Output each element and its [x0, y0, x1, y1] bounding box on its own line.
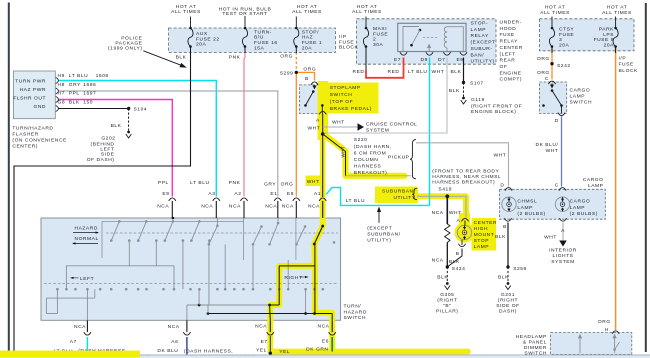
svg-text:A1: A1 [314, 191, 321, 197]
svg-text:SIDE OF: SIDE OF [496, 303, 519, 309]
svg-text:YEL: YEL [279, 349, 290, 355]
wire: stop/haz fuse 1 ORG dashed to S299 [295, 52, 297, 71]
wire: flasher H8 GRY 1696 to switch E1 [58, 91, 278, 197]
svg-text:NORMAL: NORMAL [75, 236, 99, 242]
svg-text:E7: E7 [261, 339, 268, 345]
svg-text:HOT AT: HOT AT [607, 5, 628, 11]
svg-text:ORG: ORG [537, 70, 550, 76]
switch interior: highlighted path wires over yellow [314, 244, 316, 313]
svg-text:PARK: PARK [599, 27, 614, 33]
svg-text:(BEHIND: (BEHIND [91, 141, 115, 147]
headlamp switch pin H [612, 331, 619, 334]
resistor (chmsl dropping) [445, 224, 450, 243]
highlighter: stoplamp switch label patch [327, 83, 379, 114]
svg-text:POLICE: POLICE [121, 36, 142, 42]
svg-text:STOP/: STOP/ [302, 29, 319, 35]
stoplamp switch pin A [319, 111, 326, 114]
svg-text:CHMSL: CHMSL [517, 199, 537, 205]
svg-text:WHT: WHT [546, 148, 559, 154]
highlighter: suburban/utility wire through S419 to high mount lamp [417, 196, 467, 219]
svg-text:PPL: PPL [69, 91, 80, 97]
wire: relay D9 LT BLU down to A1 feed run [429, 58, 431, 206]
wire: stoplamp switch A WHT down to junction [322, 114, 324, 135]
svg-text:SYSTEM: SYSTEM [366, 128, 389, 134]
svg-text:2: 2 [373, 37, 376, 43]
switch interior: dashed guide line lower [44, 283, 338, 285]
relay U1 dashed actuator link [423, 37, 439, 39]
svg-text:A3: A3 [208, 191, 215, 197]
node S259 [506, 265, 509, 268]
svg-text:SIDE: SIDE [101, 152, 115, 158]
svg-text:20A: 20A [196, 42, 207, 48]
svg-text:E9: E9 [162, 191, 169, 197]
wire: relay D7 WHT down and left to stoplamp junction [324, 58, 448, 134]
svg-text:DASH): DASH) [499, 309, 517, 315]
svg-text:LAMP: LAMP [471, 27, 487, 33]
svg-text:ORG: ORG [537, 56, 550, 62]
flasher pins H9 H8 H7 G8 [56, 78, 59, 84]
fuse output stubs [190, 47, 192, 54]
svg-text:CENTER: CENTER [474, 220, 497, 226]
svg-text:6 CM FROM: 6 CM FROM [354, 150, 386, 156]
svg-text:H9: H9 [58, 73, 65, 79]
svg-text:LT BLU: LT BLU [190, 180, 209, 186]
svg-text:G8: G8 [58, 99, 66, 105]
svg-text:TURN/: TURN/ [344, 304, 362, 310]
svg-text:FUSE: FUSE [500, 32, 515, 38]
left page frame [8, 3, 10, 358]
highlighter: center high mount stop lamp text patch [472, 218, 497, 251]
svg-text:A2: A2 [234, 191, 241, 197]
fuse STOP/HAZ FUSE 1 20A [295, 17, 297, 29]
svg-text:(DASH HARNESS,: (DASH HARNESS, [184, 348, 233, 354]
svg-text:C: C [555, 182, 559, 188]
high mount lamp pin A [461, 218, 468, 221]
svg-text:FUSE 9: FUSE 9 [594, 37, 614, 43]
svg-text:(1999 ONLY): (1999 ONLY) [108, 46, 143, 52]
stoplamp switch pin B [311, 82, 318, 85]
arrow to cruise control system [358, 123, 365, 131]
svg-text:RELAY: RELAY [471, 33, 490, 39]
switch pins A7 A6 E7 E6 (bottom) [84, 332, 91, 335]
lamp: CHMSL lamp (2 bulbs) [502, 197, 516, 211]
wire: junction WHT down to switch A1 [322, 134, 324, 197]
svg-text:I/P: I/P [339, 34, 347, 40]
svg-text:C: C [545, 76, 549, 82]
wire: cargo switch D DK BLU/WHT down to cargo lamp C [561, 116, 563, 186]
svg-text:AUX: AUX [196, 31, 208, 37]
svg-text:TURN PWR: TURN PWR [15, 78, 46, 84]
svg-text:B: B [456, 251, 460, 257]
svg-text:BLK: BLK [176, 55, 187, 61]
svg-text:FUSE: FUSE [373, 31, 388, 37]
svg-text:G201: G201 [501, 292, 515, 298]
svg-text:SUBURBAN/: SUBURBAN/ [367, 232, 401, 238]
fuse TURN-B/U FUSE 16 15A [244, 16, 246, 28]
wire: junction WHT diagonal to S220 leg [323, 134, 346, 176]
svg-text:INTERIOR: INTERIOR [549, 247, 577, 253]
svg-text:E9: E9 [457, 57, 464, 63]
svg-text:NCA: NCA [201, 203, 213, 209]
svg-text:BLK: BLK [111, 123, 122, 129]
bottom cropped box band [0, 354, 650, 356]
svg-text:WHT: WHT [307, 179, 320, 185]
svg-text:STOP: STOP [474, 238, 489, 244]
svg-text:FUSE 22: FUSE 22 [196, 36, 220, 42]
cargo lamp switch contacts [551, 84, 553, 87]
switch interior: top row contacts (left bank) [118, 220, 121, 223]
svg-text:(RIGHT FRONT OF: (RIGHT FRONT OF [471, 103, 522, 109]
svg-text:HAZARD: HAZARD [75, 225, 98, 231]
svg-text:UNDER-: UNDER- [500, 20, 522, 26]
svg-text:FUSE: FUSE [619, 62, 634, 68]
wire: high mount lamp B BLK to S424 [447, 249, 462, 267]
svg-text:20A: 20A [559, 43, 570, 49]
svg-text:NCA: NCA [432, 210, 444, 216]
node S424 [446, 265, 449, 268]
wire: S220 leg WHT right to suburban brace [346, 175, 412, 177]
highlighter: patch behind WHT label above A1 [306, 176, 324, 187]
svg-text:H7: H7 [58, 91, 65, 97]
wire: S104 dashed BLK to G202 [128, 109, 130, 131]
svg-text:"B": "B" [443, 303, 451, 309]
svg-text:B/U: B/U [254, 35, 264, 41]
wire: suburban WHT from brace through S419 to high mount lamp A [417, 196, 466, 217]
switch interior: top row contacts (right bank) [216, 225, 219, 228]
svg-text:STOPLAMP: STOPLAMP [330, 85, 361, 91]
svg-text:UTILITY): UTILITY) [471, 59, 495, 65]
svg-text:WHT: WHT [332, 120, 345, 126]
svg-text:TEST OR START: TEST OR START [222, 11, 267, 17]
wire: S419 NCA down to resistor [446, 196, 448, 224]
svg-text:15A: 15A [254, 45, 265, 51]
svg-text:FLASHER: FLASHER [12, 132, 38, 138]
svg-text:FLSHR OUT: FLSHR OUT [13, 96, 46, 102]
svg-text:HARNESS: HARNESS [354, 164, 382, 170]
svg-text:A: A [316, 117, 320, 123]
svg-text:1508: 1508 [96, 73, 109, 79]
highlighter: stoplamp switch A-lead blob [318, 81, 329, 140]
svg-text:(TOP OF: (TOP OF [330, 99, 354, 105]
wire: relay E9 BLK to S107 [463, 58, 465, 83]
lamp: center high mount stop lamp [457, 225, 471, 239]
relay U1 internal switch [403, 27, 419, 52]
ground G202 [127, 131, 130, 134]
svg-text:S242: S242 [557, 63, 571, 69]
chmsl lamp pin D [505, 188, 512, 191]
node S299 [295, 71, 298, 74]
wire: aux fuse 22 BLK down, left, down to bottom [14, 52, 191, 351]
svg-text:S424: S424 [452, 266, 466, 272]
switch interior: RIGHT selector rect [279, 266, 315, 313]
wire: chmsl lamp B BLK down to S259 [507, 223, 509, 267]
svg-text:CARGO: CARGO [570, 199, 591, 205]
wire: E6 DK GRN stub below switch [331, 337, 333, 352]
svg-text:SWITCH: SWITCH [330, 92, 353, 98]
wire: S259 dashed BLK to G201 [507, 267, 509, 282]
svg-text:HAZ PWR: HAZ PWR [20, 87, 46, 93]
wire: resistor to S424 [446, 243, 448, 267]
svg-text:S104: S104 [134, 107, 148, 113]
svg-text:20A: 20A [604, 43, 615, 49]
wire: cargo lamp A WHT down to interior lights arrow [562, 223, 564, 241]
svg-text:BLK: BLK [498, 274, 509, 280]
svg-text:REAR: REAR [500, 58, 516, 64]
svg-text:D9: D9 [421, 57, 428, 63]
switch interior: top rail and dividers [102, 220, 244, 222]
suburban/utility brace [412, 188, 417, 199]
wire: RED maxi fuse to relay E7 [366, 58, 404, 78]
wire: flasher H9 LT BLU 1508 to switch A3 [58, 81, 216, 197]
svg-text:CARGO: CARGO [583, 177, 604, 183]
svg-text:HAZARD: HAZARD [344, 309, 367, 315]
right page frame [645, 3, 647, 352]
chmsl lamp pin B [504, 218, 511, 221]
svg-text:LEFT: LEFT [80, 276, 94, 282]
svg-text:NCA: NCA [229, 203, 241, 209]
svg-text:1696: 1696 [83, 82, 96, 88]
svg-text:ORG: ORG [303, 66, 316, 72]
svg-text:BLK: BLK [449, 88, 460, 94]
wire: flasher H7 PPL 1697 to switch E9 [58, 100, 172, 197]
svg-text:OF: OF [500, 64, 508, 70]
police package pointer arrow [143, 51, 183, 66]
svg-text:GND: GND [33, 104, 46, 110]
svg-text:(DASH HARN,: (DASH HARN, [354, 144, 392, 150]
svg-text:LAMP: LAMP [570, 93, 586, 99]
svg-text:(2 BULBS): (2 BULBS) [517, 211, 545, 217]
svg-text:1697: 1697 [83, 91, 96, 97]
svg-text:HOT AT: HOT AT [297, 4, 318, 10]
svg-text:BLOCK: BLOCK [339, 45, 359, 51]
chmsl / cargo lamp box [500, 189, 606, 219]
svg-text:(ON CONVENIENCE: (ON CONVENIENCE [12, 138, 67, 144]
arrow to interior lights system [559, 241, 567, 247]
svg-text:E8: E8 [287, 191, 294, 197]
svg-text:GRY: GRY [264, 181, 276, 187]
node S419 [445, 194, 449, 198]
svg-text:LPS: LPS [603, 32, 614, 38]
stoplamp switch box [300, 85, 324, 114]
svg-text:(RIGHT: (RIGHT [498, 297, 518, 303]
svg-text:BLK: BLK [69, 99, 80, 105]
svg-text:GRY: GRY [69, 82, 81, 88]
highlighter: bottom YEL/DK GRN run [270, 336, 468, 352]
svg-text:30A: 30A [373, 42, 384, 48]
node S104 [127, 107, 130, 110]
svg-text:D: D [555, 118, 559, 124]
svg-text:B: B [305, 76, 309, 82]
ground G119 [462, 97, 465, 100]
svg-text:DK BLU: DK BLU [157, 348, 178, 354]
switch interior: lower connection wires [46, 297, 94, 299]
node S107 [462, 81, 465, 84]
svg-text:NCA: NCA [74, 324, 86, 330]
svg-text:WHT: WHT [449, 210, 462, 216]
svg-text:HOT AT: HOT AT [545, 5, 566, 11]
svg-text:BLK: BLK [437, 274, 448, 280]
wire: S299 ORG to stoplamp switch B [296, 72, 314, 80]
bottom cropped band overlay [0, 354, 650, 356]
svg-text:I/P: I/P [619, 56, 627, 62]
svg-text:HAZ: HAZ [302, 35, 313, 41]
pickup brace [410, 140, 416, 179]
svg-text:LT BLU: LT BLU [346, 198, 365, 204]
svg-text:A7: A7 [70, 339, 77, 345]
svg-text:(FRONT TO REAR BODY: (FRONT TO REAR BODY [432, 169, 499, 175]
ground G305 [446, 282, 449, 285]
svg-text:DIMMER: DIMMER [524, 345, 547, 351]
headlamp and panel dimmer switch box [551, 333, 632, 355]
svg-text:D: D [500, 182, 504, 188]
svg-text:BLOCK: BLOCK [619, 68, 639, 74]
svg-text:PNK: PNK [229, 55, 241, 61]
ground G201 [507, 282, 510, 285]
highlighter: bottom-left cropped bar [0, 351, 140, 358]
svg-text:RED: RED [353, 69, 365, 75]
svg-text:RED: RED [388, 69, 400, 75]
svg-text:HEADLAMP: HEADLAMP [516, 334, 547, 340]
svg-text:LT BLU: LT BLU [69, 73, 88, 79]
svg-text:STOP-: STOP- [471, 21, 489, 27]
switch interior: A1 highlighted contact [321, 225, 324, 228]
svg-text:BLK: BLK [495, 234, 506, 240]
svg-text:NCA: NCA [157, 203, 169, 209]
svg-text:ORG: ORG [281, 181, 294, 187]
fuse AUX FUSE 22 20A [190, 17, 192, 29]
svg-text:LAMP: LAMP [570, 205, 586, 211]
svg-text:PNK: PNK [229, 180, 241, 186]
svg-text:COMPT): COMPT) [500, 77, 523, 83]
switch interior: wire to A6/E7 [187, 304, 270, 306]
stoplamp relay box U1 [398, 23, 466, 51]
wire: except suburban/utility pointer arrow [378, 209, 380, 223]
svg-text:NCA: NCA [432, 258, 444, 264]
svg-text:& PANEL: & PANEL [523, 339, 547, 345]
svg-text:D7: D7 [438, 57, 445, 63]
svg-text:DK GRN: DK GRN [306, 347, 328, 353]
svg-text:FUSE: FUSE [559, 32, 574, 38]
svg-text:(2 BULBS): (2 BULBS) [570, 211, 598, 217]
svg-text:PPL: PPL [158, 180, 169, 186]
switch interior: contact dots row [56, 288, 59, 291]
svg-text:LEFT: LEFT [100, 147, 114, 153]
highlighter: WHT wire from stoplamp to S220 and A1 [320, 131, 326, 197]
cargo lamp pin A [559, 218, 566, 221]
svg-text:HARNESS BREAKOUT): HARNESS BREAKOUT) [432, 179, 495, 185]
underhood fuse relay center box [357, 19, 497, 64]
svg-text:FUSE 16: FUSE 16 [254, 40, 278, 46]
svg-text:S107: S107 [470, 81, 484, 87]
wire: flasher G8 BLK 150 to S104 [58, 108, 129, 110]
wire: maxi fuse 2 lead [365, 47, 367, 72]
switch pins E9 A3 A2 E1 E8 A1 (top) [169, 198, 176, 201]
cargo lamp pin C [559, 188, 566, 191]
svg-text:CENTER): CENTER) [12, 144, 38, 150]
wire: S424 dashed BLK to G305 [446, 267, 448, 282]
svg-text:SUBUR-: SUBUR- [471, 46, 493, 52]
svg-text:TURN-: TURN- [254, 29, 272, 35]
svg-text:ORG: ORG [598, 319, 611, 325]
svg-text:ENGINE: ENGINE [500, 70, 522, 76]
svg-text:(EXCEPT: (EXCEPT [367, 226, 392, 232]
svg-text:PICKUP: PICKUP [388, 155, 410, 161]
svg-text:ORG: ORG [280, 54, 293, 60]
svg-text:G202: G202 [101, 136, 115, 142]
svg-text:UTILITY: UTILITY [393, 195, 415, 201]
turn/hazard switch box [41, 218, 341, 320]
I/P fuse block box (right, CTSY/PARK) [539, 19, 634, 51]
highlighter: high mount lamp circle blob [455, 223, 475, 243]
svg-text:S259: S259 [513, 266, 527, 272]
svg-text:(EXCEPT: (EXCEPT [471, 40, 496, 46]
svg-text:LAMP: LAMP [517, 205, 533, 211]
switch interior: LEFT selector rect [66, 266, 174, 289]
I/P fuse block box (left) [169, 28, 336, 52]
switch interior: contact drop leads [128, 241, 130, 266]
svg-text:ALL TIMES: ALL TIMES [352, 9, 382, 15]
svg-text:20A: 20A [302, 45, 313, 51]
svg-text:E7: E7 [394, 57, 401, 63]
lamp: cargo lamp (2 bulbs) [555, 197, 569, 211]
svg-text:HOT AT: HOT AT [357, 4, 378, 10]
switch interior: dashed guide line upper [106, 232, 338, 234]
svg-text:LAMP: LAMP [474, 244, 490, 250]
svg-text:WHT: WHT [544, 235, 557, 241]
svg-text:CRUISE CONTROL: CRUISE CONTROL [366, 122, 417, 128]
svg-text:WHT: WHT [432, 69, 445, 75]
wire: ctsy fuse 3 ORG to S242 and cargo lamp switch C [551, 47, 553, 80]
wire: S299 ORG down to switch E8 [295, 72, 297, 196]
svg-text:SWITCH: SWITCH [570, 99, 593, 105]
fuse PARK LPS FUSE 9 20A [615, 17, 617, 29]
svg-text:H8: H8 [58, 82, 65, 88]
svg-text:S419: S419 [438, 187, 452, 193]
svg-text:BLK: BLK [451, 69, 462, 75]
svg-text:ALL TIMES: ALL TIMES [540, 10, 570, 16]
svg-text:HARNESS, NEAR CHMSL: HARNESS, NEAR CHMSL [432, 174, 501, 180]
svg-text:PACKAGE: PACKAGE [115, 41, 142, 47]
svg-text:3: 3 [559, 37, 562, 43]
wire: turn-b/u fuse 16 PNK to switch A2 [244, 52, 245, 196]
svg-text:CARGO: CARGO [570, 88, 591, 94]
svg-text:S220: S220 [354, 137, 368, 143]
svg-text:BAN/: BAN/ [471, 52, 485, 58]
turn/hazard flasher box [13, 71, 55, 119]
svg-text:PILLAR): PILLAR) [436, 309, 458, 315]
svg-text:SWITCH: SWITCH [344, 315, 367, 321]
svg-text:G305: G305 [440, 292, 454, 298]
svg-text:A6: A6 [171, 339, 178, 345]
wire: A7 LT BLU stub below switch [86, 337, 88, 355]
svg-text:HIGH: HIGH [474, 226, 488, 232]
wire: branch to cruise control system [323, 126, 358, 128]
highlighter: bottom-left cropped bar (over band) [0, 351, 140, 358]
svg-text:YEL: YEL [256, 347, 267, 353]
svg-text:NCA: NCA [282, 203, 294, 209]
svg-text:MOUNT: MOUNT [474, 232, 495, 238]
svg-text:RIGHT: RIGHT [284, 275, 302, 281]
svg-text:TURN/HAZARD: TURN/HAZARD [12, 126, 53, 132]
svg-text:BREAKOUT): BREAKOUT) [354, 170, 387, 176]
switch interior: hazard/normal arrows [73, 232, 98, 234]
svg-text:(LEFT: (LEFT [500, 51, 516, 57]
svg-text:NCA: NCA [318, 323, 330, 329]
wire: LT BLU run to switch A1 [326, 188, 429, 206]
svg-text:HOOD: HOOD [500, 26, 517, 32]
cargo lamp switch box [539, 82, 566, 113]
svg-text:CTSY: CTSY [559, 27, 574, 33]
